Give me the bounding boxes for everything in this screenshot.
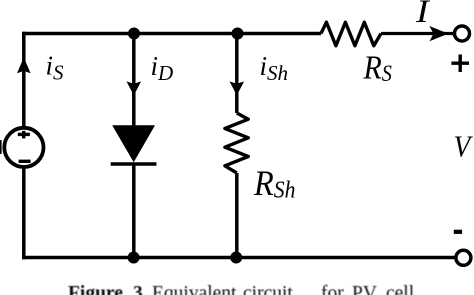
arrow i_S (up, on left branch) (17, 58, 31, 74)
wire left branch upper (current source to top bus) (22, 32, 26, 128)
wire diode branch lower (132, 164, 136, 258)
resistor R_Sh (shunt, vertical zigzag) (225, 113, 248, 173)
wire top bus left of R_S (22, 32, 321, 36)
wire shunt branch upper (235, 34, 239, 114)
node junction top diode (128, 28, 140, 40)
plus mark inside source (18, 133, 30, 136)
output terminal top (open circle) (455, 26, 470, 41)
label V (output voltage) (454, 130, 474, 164)
current source circle (4, 128, 43, 167)
node junction bottom shunt (230, 252, 242, 264)
diode D (anode top, cathode bar below) (112, 125, 155, 162)
svg-text:I: I (415, 0, 431, 29)
node junction top shunt (232, 28, 244, 40)
arrow i_D (down, on diode branch) (127, 81, 142, 95)
minus terminal polarity mark (454, 230, 462, 234)
minus mark inside source (19, 160, 31, 163)
output terminal bottom (open circle) (456, 250, 471, 265)
wire diode branch upper (132, 34, 136, 128)
label R_Sh (253, 163, 295, 203)
label I (415, 0, 431, 29)
wire shunt branch lower (235, 173, 239, 258)
resistor R_S (series, horizontal zigzag) (321, 22, 381, 46)
wire left branch lower (current source to bottom bus) (22, 167, 26, 259)
wire top bus right of R_S to output terminal (381, 32, 455, 35)
wire bottom bus (22, 256, 456, 260)
svg-text:V: V (454, 130, 474, 164)
plus terminal polarity mark (451, 62, 469, 65)
label R_S (363, 48, 392, 87)
arrow i_Sh (down, on shunt branch) (230, 81, 245, 95)
arrow I (right, output current) (429, 26, 448, 41)
left edge scan sliver (0, 140, 2, 154)
node junction bottom diode (128, 252, 140, 264)
